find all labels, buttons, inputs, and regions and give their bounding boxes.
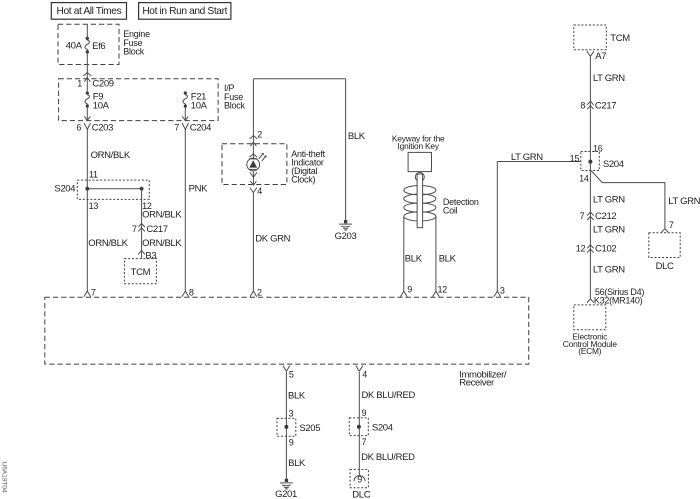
- wire coil left BLK to pin 9: [403, 216, 405, 291]
- immobilizer receiver box: [45, 297, 529, 388]
- top horizontal wire anti-theft to BLK: [253, 78, 345, 80]
- wire LT GRN main right chain: [589, 56, 591, 299]
- key shaft: [417, 174, 423, 228]
- pin B3 chevron into TCM: [138, 250, 156, 261]
- svg-text:1: 1: [77, 78, 82, 88]
- svg-text:C204: C204: [190, 123, 211, 134]
- keyway head box: [408, 152, 431, 171]
- ECM box: [563, 305, 618, 356]
- wire PNK down to immobilizer pin 8: [184, 129, 186, 291]
- svg-text:BLK: BLK: [288, 390, 306, 401]
- svg-text:Clock): Clock): [291, 174, 315, 184]
- svg-text:BLK: BLK: [288, 458, 306, 469]
- pin 6 C203 female fork: [76, 122, 113, 133]
- wire BLK down to G203: [345, 79, 347, 220]
- fuse F9 10A: [85, 91, 110, 111]
- immobilizer pin 4 fork below: [356, 366, 367, 380]
- chevron inside anti-theft box: [250, 154, 258, 157]
- pin 1 C209 label: [77, 78, 114, 89]
- svg-text:Block: Block: [123, 47, 145, 57]
- svg-text:ORN/BLK: ORN/BLK: [88, 238, 128, 249]
- svg-text:Ef6: Ef6: [92, 41, 105, 52]
- svg-text:14: 14: [579, 173, 589, 183]
- svg-text:G201: G201: [275, 489, 297, 499]
- svg-text:LT GRN: LT GRN: [668, 196, 700, 207]
- male arrow exiting anti-theft box: [250, 181, 256, 185]
- svg-text:DK BLU/RED: DK BLU/RED: [361, 452, 415, 463]
- svg-text:LT GRN: LT GRN: [593, 73, 625, 84]
- wire from box top to fuse Ef6: [86, 24, 88, 37]
- svg-text:B3: B3: [145, 250, 156, 261]
- svg-text:Block: Block: [224, 101, 246, 111]
- DLC box bottom: [350, 469, 371, 499]
- title box Hot in Run and Start: [139, 3, 231, 20]
- svg-text:4: 4: [362, 369, 367, 379]
- pin 7 chevron into DLC right: [662, 220, 674, 232]
- svg-text:Coil: Coil: [443, 206, 458, 216]
- female fork below LED: [250, 172, 257, 177]
- svg-text:S204: S204: [54, 183, 75, 194]
- svg-text:BLK: BLK: [439, 254, 457, 265]
- svg-text:G203: G203: [335, 231, 357, 242]
- svg-text:13: 13: [89, 201, 99, 211]
- TCM box left: [124, 259, 156, 284]
- svg-text:40A: 40A: [66, 41, 83, 52]
- svg-text:10A: 10A: [191, 100, 208, 111]
- svg-text:U6A19T04: U6A19T04: [1, 462, 8, 493]
- Engine Fuse Block box: [58, 24, 150, 64]
- svg-text:ORN/BLK: ORN/BLK: [142, 238, 182, 249]
- splice S204 right box: [581, 152, 624, 171]
- svg-text:Receiver: Receiver: [459, 378, 494, 389]
- wire ORN/BLK left main down to immobilizer pin 7: [86, 129, 88, 291]
- svg-text:9: 9: [362, 408, 367, 418]
- svg-text:LT GRN: LT GRN: [593, 265, 625, 276]
- svg-text:11: 11: [89, 169, 98, 179]
- detection coil caption: [443, 197, 479, 216]
- svg-text:7: 7: [174, 122, 179, 132]
- svg-text:2: 2: [257, 129, 262, 139]
- immobilizer pin 7 fork: [84, 287, 96, 297]
- splice S204 bottom box: [349, 418, 392, 436]
- svg-text:PNK: PNK: [189, 183, 208, 194]
- svg-text:C217: C217: [146, 224, 167, 235]
- pin 56 K32 labels: [594, 287, 645, 306]
- keyway ring circle: [415, 173, 424, 182]
- svg-text:C203: C203: [92, 123, 113, 134]
- svg-text:ORN/BLK: ORN/BLK: [142, 210, 182, 221]
- svg-text:BLK: BLK: [405, 254, 423, 265]
- svg-text:C209: C209: [92, 78, 113, 89]
- svg-text:5: 5: [289, 369, 294, 379]
- LED indicator lamp: [247, 153, 266, 171]
- detection coil ellipse 4: [404, 212, 436, 221]
- detection coil ellipse 3: [404, 203, 436, 212]
- svg-text:S204: S204: [603, 159, 624, 170]
- TCM box right: [574, 25, 630, 50]
- svg-text:15: 15: [570, 153, 580, 163]
- title box Hot at All Times: [51, 3, 126, 20]
- svg-text:TCM: TCM: [131, 267, 151, 278]
- wire LT GRN branch down to immobilizer pin 3: [496, 162, 498, 292]
- svg-text:Hot at All Times: Hot at All Times: [57, 6, 122, 17]
- wire BLK down to G201: [285, 372, 287, 479]
- svg-text:BLK: BLK: [348, 131, 366, 142]
- immobilizer pin 12 fork: [433, 285, 448, 297]
- female fork below anti-theft box pin 4: [250, 186, 262, 196]
- svg-text:6: 6: [76, 122, 81, 132]
- svg-text:C217: C217: [595, 101, 616, 112]
- immobilizer pin 5 fork below: [283, 366, 294, 380]
- immobilizer pin 9 fork: [400, 285, 412, 297]
- svg-text:9: 9: [289, 437, 294, 447]
- svg-text:10A: 10A: [93, 100, 110, 111]
- svg-text:ORN/BLK: ORN/BLK: [91, 150, 131, 161]
- wire coil right BLK to pin 12: [435, 216, 437, 291]
- svg-text:DLC: DLC: [656, 261, 674, 272]
- svg-text:DK BLU/RED: DK BLU/RED: [362, 390, 416, 401]
- DLC box right: [649, 233, 680, 272]
- male arrow entering I/P block pin 1: [84, 78, 90, 82]
- connector 12 C102 double chevron: [576, 244, 617, 255]
- splice S204 left box: [54, 180, 149, 199]
- svg-text:7: 7: [362, 437, 367, 447]
- connector 8 C217 double chevron: [580, 101, 616, 112]
- svg-text:7: 7: [91, 287, 96, 297]
- svg-text:S205: S205: [299, 423, 320, 434]
- connector 7 C212 double chevron: [580, 211, 617, 222]
- ground G203: [335, 220, 357, 242]
- wire from fuse down across gap to I/P block: [86, 54, 88, 92]
- wire LT GRN branch horizontal to S204: [497, 161, 581, 163]
- svg-text:8: 8: [189, 287, 194, 297]
- svg-text:C212: C212: [595, 211, 616, 222]
- female chevron above anti-theft pin 2: [250, 136, 258, 140]
- svg-text:C102: C102: [595, 244, 616, 255]
- svg-text:TCM: TCM: [610, 33, 630, 44]
- detection coil ellipse 2: [404, 194, 436, 203]
- immobilizer pin 3 fork: [494, 286, 505, 297]
- svg-text:3: 3: [289, 409, 294, 419]
- fuse F21 10A: [183, 91, 208, 111]
- pin A7 female fork: [587, 51, 606, 62]
- wire DK BLU/RED down to DLC: [358, 372, 360, 476]
- splice S205 box: [277, 418, 320, 436]
- svg-text:7: 7: [580, 211, 585, 221]
- svg-text:3: 3: [500, 286, 505, 296]
- wire down to anti-theft pin 2: [252, 79, 254, 160]
- svg-text:12: 12: [576, 244, 586, 254]
- female chevron above I/P block: [83, 73, 91, 76]
- svg-text:DLC: DLC: [352, 490, 370, 499]
- branch wire S204 pin12 down to TCM: [141, 189, 143, 259]
- svg-text:S204: S204: [372, 423, 393, 434]
- keyway caption: [392, 133, 445, 151]
- connector 7 C217 double chevron: [132, 223, 168, 235]
- svg-text:2: 2: [257, 287, 262, 297]
- ground G201: [275, 479, 297, 499]
- svg-text:A7: A7: [595, 51, 606, 62]
- anti-theft indicator box: [222, 144, 326, 185]
- immobilizer pin 8 fork: [182, 287, 194, 297]
- svg-text:LT GRN: LT GRN: [593, 194, 625, 205]
- I/P Fuse Block box: [59, 79, 246, 121]
- svg-text:9: 9: [407, 285, 412, 295]
- wire F9 to block edge with exit arrow: [86, 108, 88, 120]
- chevron into ECM: [587, 299, 594, 303]
- svg-text:12: 12: [438, 285, 448, 295]
- svg-text:K32(MR140): K32(MR140): [594, 295, 643, 305]
- svg-text:(ECM): (ECM): [578, 346, 602, 356]
- junction wire inside S204: [85, 187, 143, 191]
- pin 7 C204 female fork: [174, 122, 211, 133]
- svg-text:LT GRN: LT GRN: [593, 225, 625, 236]
- svg-text:Hot in Run and Start: Hot in Run and Start: [142, 6, 227, 17]
- fuse Ef6 40A: [66, 37, 106, 54]
- wire LED to box bottom: [252, 171, 254, 185]
- svg-text:7: 7: [132, 224, 137, 234]
- svg-text:Ignition Key: Ignition Key: [398, 141, 440, 151]
- immobilizer pin 2 fork: [250, 287, 262, 297]
- svg-text:4: 4: [257, 186, 262, 196]
- svg-text:7: 7: [669, 220, 674, 230]
- svg-text:9: 9: [357, 475, 362, 485]
- svg-text:8: 8: [580, 101, 585, 111]
- detection coil ellipse 1: [404, 186, 436, 195]
- svg-text:DK GRN: DK GRN: [255, 234, 290, 245]
- male arrow entering anti-theft box: [250, 142, 256, 146]
- wire DK GRN down to immobilizer pin 2: [252, 193, 254, 292]
- svg-text:LT GRN: LT GRN: [511, 152, 543, 163]
- wire diagonal S204 to DLC branch: [591, 171, 665, 229]
- wire F21 to block edge with exit arrow: [184, 108, 186, 120]
